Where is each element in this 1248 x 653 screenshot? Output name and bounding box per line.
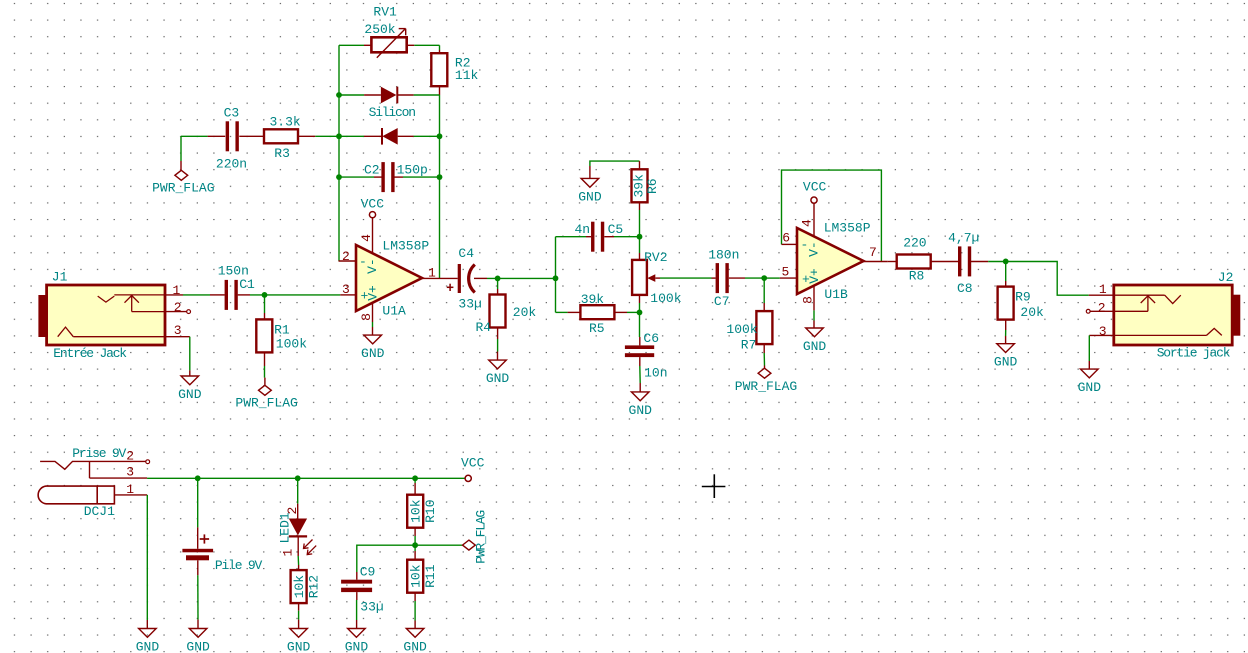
capacitor C2 150p: [339, 162, 440, 192]
node R5/RV2/C6 junction: [637, 310, 643, 316]
cursor crosshair: [702, 474, 726, 498]
svg-text:U1A: U1A: [382, 304, 406, 319]
capacitor C3 220n: [181, 106, 264, 172]
J2 pin 2: [1086, 300, 1114, 315]
capacitor C9 33µ: [341, 564, 384, 628]
svg-text:4n: 4n: [575, 222, 591, 237]
svg-text:250k: 250k: [364, 22, 395, 37]
op-amp U1B LM358P: [780, 203, 888, 310]
svg-text:1: 1: [428, 265, 436, 280]
wire junction to pin5: [764, 277, 780, 279]
svg-text:100k: 100k: [650, 291, 681, 306]
svg-text:100k: 100k: [726, 322, 757, 337]
svg-text:R7: R7: [741, 337, 757, 352]
svg-text:Prise 9V: Prise 9V: [72, 446, 126, 461]
svg-text:RV2: RV2: [644, 250, 667, 265]
node R10 junction: [412, 475, 418, 481]
svg-text:11k: 11k: [455, 68, 479, 83]
svg-text:V+: V+: [366, 285, 381, 301]
node diode D2 right junction: [437, 133, 443, 139]
wire J2 pin3 to GND: [1088, 335, 1090, 369]
resistor R3 3.3k: [264, 115, 339, 161]
wire PWR_FLAG rail: [415, 544, 462, 546]
svg-text:R9: R9: [1015, 290, 1031, 305]
svg-text:Sortie jack: Sortie jack: [1157, 346, 1231, 361]
node C2 right junction: [437, 174, 443, 180]
ground C6: [629, 392, 653, 418]
resistor R6 39k: [632, 161, 660, 237]
ground C9: [345, 629, 369, 653]
svg-text:C3: C3: [224, 106, 240, 121]
resistor R9 20k: [998, 262, 1044, 344]
resistor R11 10k: [407, 545, 438, 628]
capacitor C6 10n: [625, 312, 668, 392]
ground DCJ1: [136, 629, 160, 653]
svg-text:R6: R6: [645, 178, 660, 194]
node C4/R4 junction: [495, 276, 501, 282]
wire mid vertical C5/R5: [555, 237, 557, 313]
capacitor C7 180n: [708, 248, 764, 309]
wire C9 branch: [357, 545, 415, 572]
ground J1: [178, 376, 202, 402]
connector J2 Sortie jack: [1114, 270, 1240, 361]
svg-text:8: 8: [801, 296, 816, 304]
svg-text:150p: 150p: [397, 163, 428, 178]
svg-text:6: 6: [782, 231, 790, 246]
svg-text:2: 2: [126, 449, 134, 464]
svg-text:J1: J1: [52, 270, 68, 285]
svg-text:33µ: 33µ: [360, 600, 383, 615]
wire R6 top to GND: [590, 161, 640, 178]
svg-text:V+: V+: [807, 268, 822, 284]
svg-text:DCJ1: DCJ1: [84, 504, 115, 519]
wire J1 pin3 to GND: [189, 337, 191, 376]
power flag bottom: [463, 511, 489, 564]
ground J2: [1078, 369, 1102, 395]
node C8/R9 junction: [1003, 259, 1009, 265]
svg-text:33µ: 33µ: [458, 296, 481, 311]
resistor R2 11k: [431, 50, 478, 95]
svg-text:V-: V-: [365, 258, 380, 274]
svg-text:220: 220: [903, 235, 926, 250]
svg-text:PWR_FLAG: PWR_FLAG: [152, 181, 214, 196]
svg-text:C2: C2: [364, 163, 380, 178]
svg-text:R11: R11: [423, 564, 438, 588]
power flag top-left: [152, 136, 214, 195]
resistor R1 100k: [256, 295, 307, 378]
wire C8 node to J2 pin1: [1006, 262, 1089, 296]
svg-text:C5: C5: [608, 222, 624, 237]
power flag R7: [735, 368, 797, 394]
svg-text:8: 8: [359, 313, 374, 321]
svg-text:LED1: LED1: [278, 512, 293, 543]
svg-text:Pile 9V: Pile 9V: [215, 558, 263, 573]
svg-text:U1B: U1B: [824, 287, 848, 302]
resistor R12 10k: [291, 556, 322, 629]
svg-text:3: 3: [174, 323, 182, 338]
wire: RV1 right to R2 top: [414, 45, 439, 50]
capacitor C4 33µ polarized: [447, 246, 487, 311]
svg-text:1: 1: [173, 283, 181, 298]
power VCC terminal: [461, 456, 485, 482]
diode D2 (pointing left): [339, 128, 440, 145]
ground U1A: [361, 322, 385, 361]
svg-text:RV1: RV1: [373, 4, 397, 19]
J2 pin 1: [1089, 282, 1114, 297]
resistor R10 10k: [407, 478, 438, 545]
svg-text:20k: 20k: [513, 305, 537, 320]
wire J1 pin1 to C1: [183, 294, 210, 296]
node output junction: [553, 275, 559, 281]
svg-text:Entrée Jack: Entrée Jack: [53, 346, 127, 361]
svg-text:2: 2: [285, 507, 300, 515]
svg-text:1: 1: [126, 482, 134, 497]
svg-text:PWR_FLAG: PWR_FLAG: [235, 396, 297, 411]
ground R11: [403, 629, 427, 653]
svg-text:C6: C6: [643, 331, 659, 346]
svg-text:7: 7: [869, 245, 877, 260]
diode D1 Silicon (pointing right): [339, 87, 440, 120]
capacitor C1 150n: [210, 264, 255, 310]
node LED junction: [295, 475, 301, 481]
J1 pin 3: [165, 323, 190, 338]
capacitor C8 4,7µ: [948, 231, 1006, 296]
wire C4 to mid node: [487, 277, 556, 279]
svg-text:4: 4: [359, 234, 374, 242]
wire: right column vertical to output: [439, 95, 441, 278]
J1 pin 1: [165, 283, 183, 298]
power VCC U1B: [803, 180, 827, 204]
ground U1B: [803, 310, 827, 354]
wire: RV1 left vertical feedback column: [339, 45, 364, 261]
wire DCJ1 pin1 to GND: [146, 495, 148, 629]
svg-text:R1: R1: [274, 322, 290, 337]
svg-text:C4: C4: [458, 246, 474, 261]
svg-text:10n: 10n: [644, 365, 667, 380]
node PWR_FLAG rail junction: [412, 542, 418, 548]
svg-text:VCC: VCC: [461, 456, 485, 471]
svg-text:VCC: VCC: [361, 197, 385, 212]
J2 pin 3: [1089, 324, 1114, 339]
svg-text:R4: R4: [476, 320, 492, 335]
svg-text:Silicon: Silicon: [369, 105, 416, 120]
svg-text:3: 3: [126, 465, 134, 480]
potentiometer RV1: [364, 4, 414, 57]
wire RV2 wiper to C7: [660, 277, 712, 279]
svg-text:5: 5: [782, 265, 790, 280]
svg-text:V-: V-: [807, 241, 822, 257]
svg-text:1: 1: [281, 549, 296, 557]
ground R4: [486, 360, 510, 386]
svg-text:3: 3: [1099, 324, 1107, 339]
svg-text:1: 1: [1099, 282, 1107, 297]
svg-text:2: 2: [1098, 300, 1106, 315]
svg-text:LM358P: LM358P: [382, 239, 429, 254]
svg-text:20k: 20k: [1020, 305, 1044, 320]
svg-text:180n: 180n: [708, 248, 739, 263]
connector J1 Entrée Jack: [38, 270, 165, 362]
svg-text:J2: J2: [1218, 270, 1234, 285]
svg-text:R8: R8: [909, 268, 925, 283]
ground R6: [578, 178, 602, 204]
capacitor C5 4n: [556, 222, 640, 252]
svg-text:PWR_FLAG: PWR_FLAG: [735, 379, 797, 394]
resistor R4 20k: [476, 278, 537, 360]
svg-text:C1: C1: [239, 277, 255, 292]
resistor R8 220: [888, 235, 958, 283]
svg-text:R12: R12: [307, 575, 322, 598]
svg-text:4,7µ: 4,7µ: [948, 231, 979, 246]
svg-text:100k: 100k: [276, 336, 307, 351]
potentiometer RV2 100k: [632, 237, 682, 313]
node C7/R7/pin5 junction: [761, 275, 767, 281]
connector DCJ1 Prise 9V: [38, 446, 149, 519]
battery Pile 9V: [182, 478, 262, 628]
resistor R5 39k: [556, 292, 640, 336]
resistor R7 100k: [726, 278, 772, 368]
svg-text:10k: 10k: [409, 564, 424, 588]
node diode D1 left junction: [336, 92, 342, 98]
ground R12: [287, 629, 311, 653]
power flag R1: [235, 378, 297, 411]
node battery junction: [195, 475, 201, 481]
svg-text:4: 4: [800, 219, 815, 227]
svg-text:2: 2: [342, 249, 350, 264]
svg-text:3: 3: [342, 282, 350, 297]
wire U1B feedback loop: [782, 170, 882, 261]
svg-text:220n: 220n: [216, 156, 247, 171]
power VCC U1A: [361, 197, 385, 218]
LED1: [278, 478, 317, 556]
node C1/R1 junction: [262, 292, 268, 298]
svg-text:VCC: VCC: [803, 180, 827, 195]
op-amp U1A LM358P: [339, 218, 458, 322]
svg-text:10k: 10k: [409, 499, 424, 523]
svg-text:C9: C9: [360, 564, 376, 579]
wire C1 to U1A pin3: [250, 294, 340, 296]
node diode D2 left junction: [336, 133, 342, 139]
svg-text:R10: R10: [423, 499, 438, 522]
svg-text:C7: C7: [714, 294, 730, 309]
svg-text:39k: 39k: [581, 292, 605, 307]
svg-text:C8: C8: [957, 281, 973, 296]
svg-text:R5: R5: [589, 321, 605, 336]
svg-text:10k: 10k: [292, 575, 307, 599]
ground battery: [186, 629, 210, 653]
svg-text:PWR_FLAG: PWR_FLAG: [474, 511, 489, 564]
svg-text:2: 2: [174, 300, 182, 315]
node C5/R6/RV2 junction: [637, 234, 643, 240]
J1 pin 2: [165, 300, 191, 315]
svg-text:3.3k: 3.3k: [270, 115, 301, 130]
svg-text:R3: R3: [274, 146, 290, 161]
node C2 left junction: [336, 174, 342, 180]
ground R9: [994, 344, 1018, 370]
svg-text:LM358P: LM358P: [824, 221, 871, 236]
wire VCC rail: [147, 477, 465, 479]
